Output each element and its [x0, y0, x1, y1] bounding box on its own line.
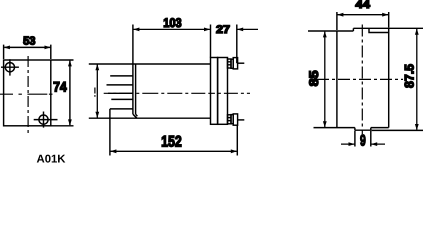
top clamp screw knurl lines [228, 62, 232, 65]
right view: tab bottom extension to 87.5 [372, 129, 423, 131]
horizontal centerline of housing [104, 92, 250, 94]
terminal fin 3 [108, 92, 133, 94]
terminal fin 4 [111, 98, 133, 100]
bottom clamp screw nut [233, 114, 237, 125]
dimension 27 outside arrow line [237, 28, 258, 30]
crosshair of bottom-right hole [34, 112, 58, 128]
right view: top edge left part [308, 30, 353, 32]
dimension 87.5 line [416, 29, 418, 130]
vertical centerline of flange [27, 56, 29, 135]
dimension 85 arrowheads [323, 31, 327, 127]
top clamp screw shaft stub [238, 62, 245, 64]
right view: plate left edge [336, 31, 338, 128]
svg-text:87.5: 87.5 [403, 64, 417, 88]
dimension 103 right extension [210, 25, 212, 58]
flange plate (side) [211, 58, 218, 125]
dimension 44 arrowheads [337, 13, 388, 17]
dimension 27 outside arrowhead [237, 28, 243, 32]
dimension 152 line [111, 150, 237, 152]
bottom clamp screw shaft stub [238, 119, 245, 121]
dimension 103 arrowheads [133, 28, 210, 32]
dimension 152 right extension [236, 125, 238, 155]
horizontal centerline of flange [0, 93, 53, 95]
right view vertical centerline [361, 25, 363, 135]
bottom clamp screw knurled head [228, 115, 232, 124]
svg-text:103: 103 [163, 16, 181, 30]
svg-text:74: 74 [53, 80, 67, 95]
unlabeled dimension arrowheads [95, 64, 99, 118]
dimension 27 right extension [236, 25, 238, 64]
svg-text:85: 85 [307, 70, 321, 86]
top clamp screw knurled head [228, 59, 232, 68]
mounting hole bottom-right [39, 115, 48, 124]
svg-text:53: 53 [23, 35, 35, 47]
svg-text:A01K: A01K [37, 154, 67, 166]
svg-text:27: 27 [216, 24, 230, 36]
svg-text:9: 9 [360, 133, 366, 150]
housing bottom edge [89, 117, 211, 119]
svg-text:152: 152 [161, 134, 182, 151]
dimension 44 line [338, 14, 389, 16]
dimension 53 line [4, 46, 50, 48]
right view: raised top edge and 87.5 extension [353, 27, 423, 29]
right view: boss underside line [369, 28, 389, 32]
dimension 74 line [69, 61, 71, 126]
bottom clamp screw knurl lines [228, 118, 232, 121]
dimension 74 arrowheads [68, 60, 72, 125]
terminal fin 2 [107, 84, 133, 86]
dimension 103 line [134, 28, 210, 30]
short vertical dash-dot mark left of dimension [94, 88, 96, 97]
dimension 87.5 arrowheads [415, 29, 419, 131]
dimension 53 extension lines [4, 45, 51, 59]
dimension 9 outside arrow lines [341, 143, 385, 145]
bottom clamp screw washer [231, 115, 233, 124]
crosshair of top-left hole [1, 59, 19, 75]
dimension 85 line [324, 32, 326, 127]
housing front face line [135, 64, 137, 114]
housing top edge [89, 63, 211, 65]
middle view: unlabeled height dimension line [96, 64, 98, 117]
svg-text:44: 44 [355, 0, 371, 11]
dimension 74 extension lines [52, 60, 74, 126]
dimension 152 arrowheads [110, 149, 237, 153]
dimension 53 arrowheads [4, 46, 51, 50]
dimension 9 arrowheads [349, 142, 378, 146]
right view: plate right edge [388, 33, 390, 128]
terminal block right edge [132, 25, 134, 115]
rear block (side) [218, 58, 228, 125]
top clamp screw washer [231, 59, 233, 68]
mounting hole top-left [5, 63, 14, 72]
right view: bottom tab [355, 128, 371, 131]
terminal block step edge [110, 108, 133, 110]
dimension 44 extension lines [337, 12, 389, 30]
terminal block step vertical and 152 left extension [109, 109, 111, 156]
right view horizontal centerline [317, 78, 403, 80]
right view: top step vertical [352, 28, 354, 31]
left view: flange front outline [4, 60, 51, 126]
dimension 9 extension lines [355, 131, 371, 147]
top clamp screw nut [233, 58, 237, 69]
chamfer at terminal block bottom [133, 114, 138, 118]
terminal fin 1 [110, 75, 133, 77]
right view: plate bottom edge with 85 extension [314, 127, 389, 129]
